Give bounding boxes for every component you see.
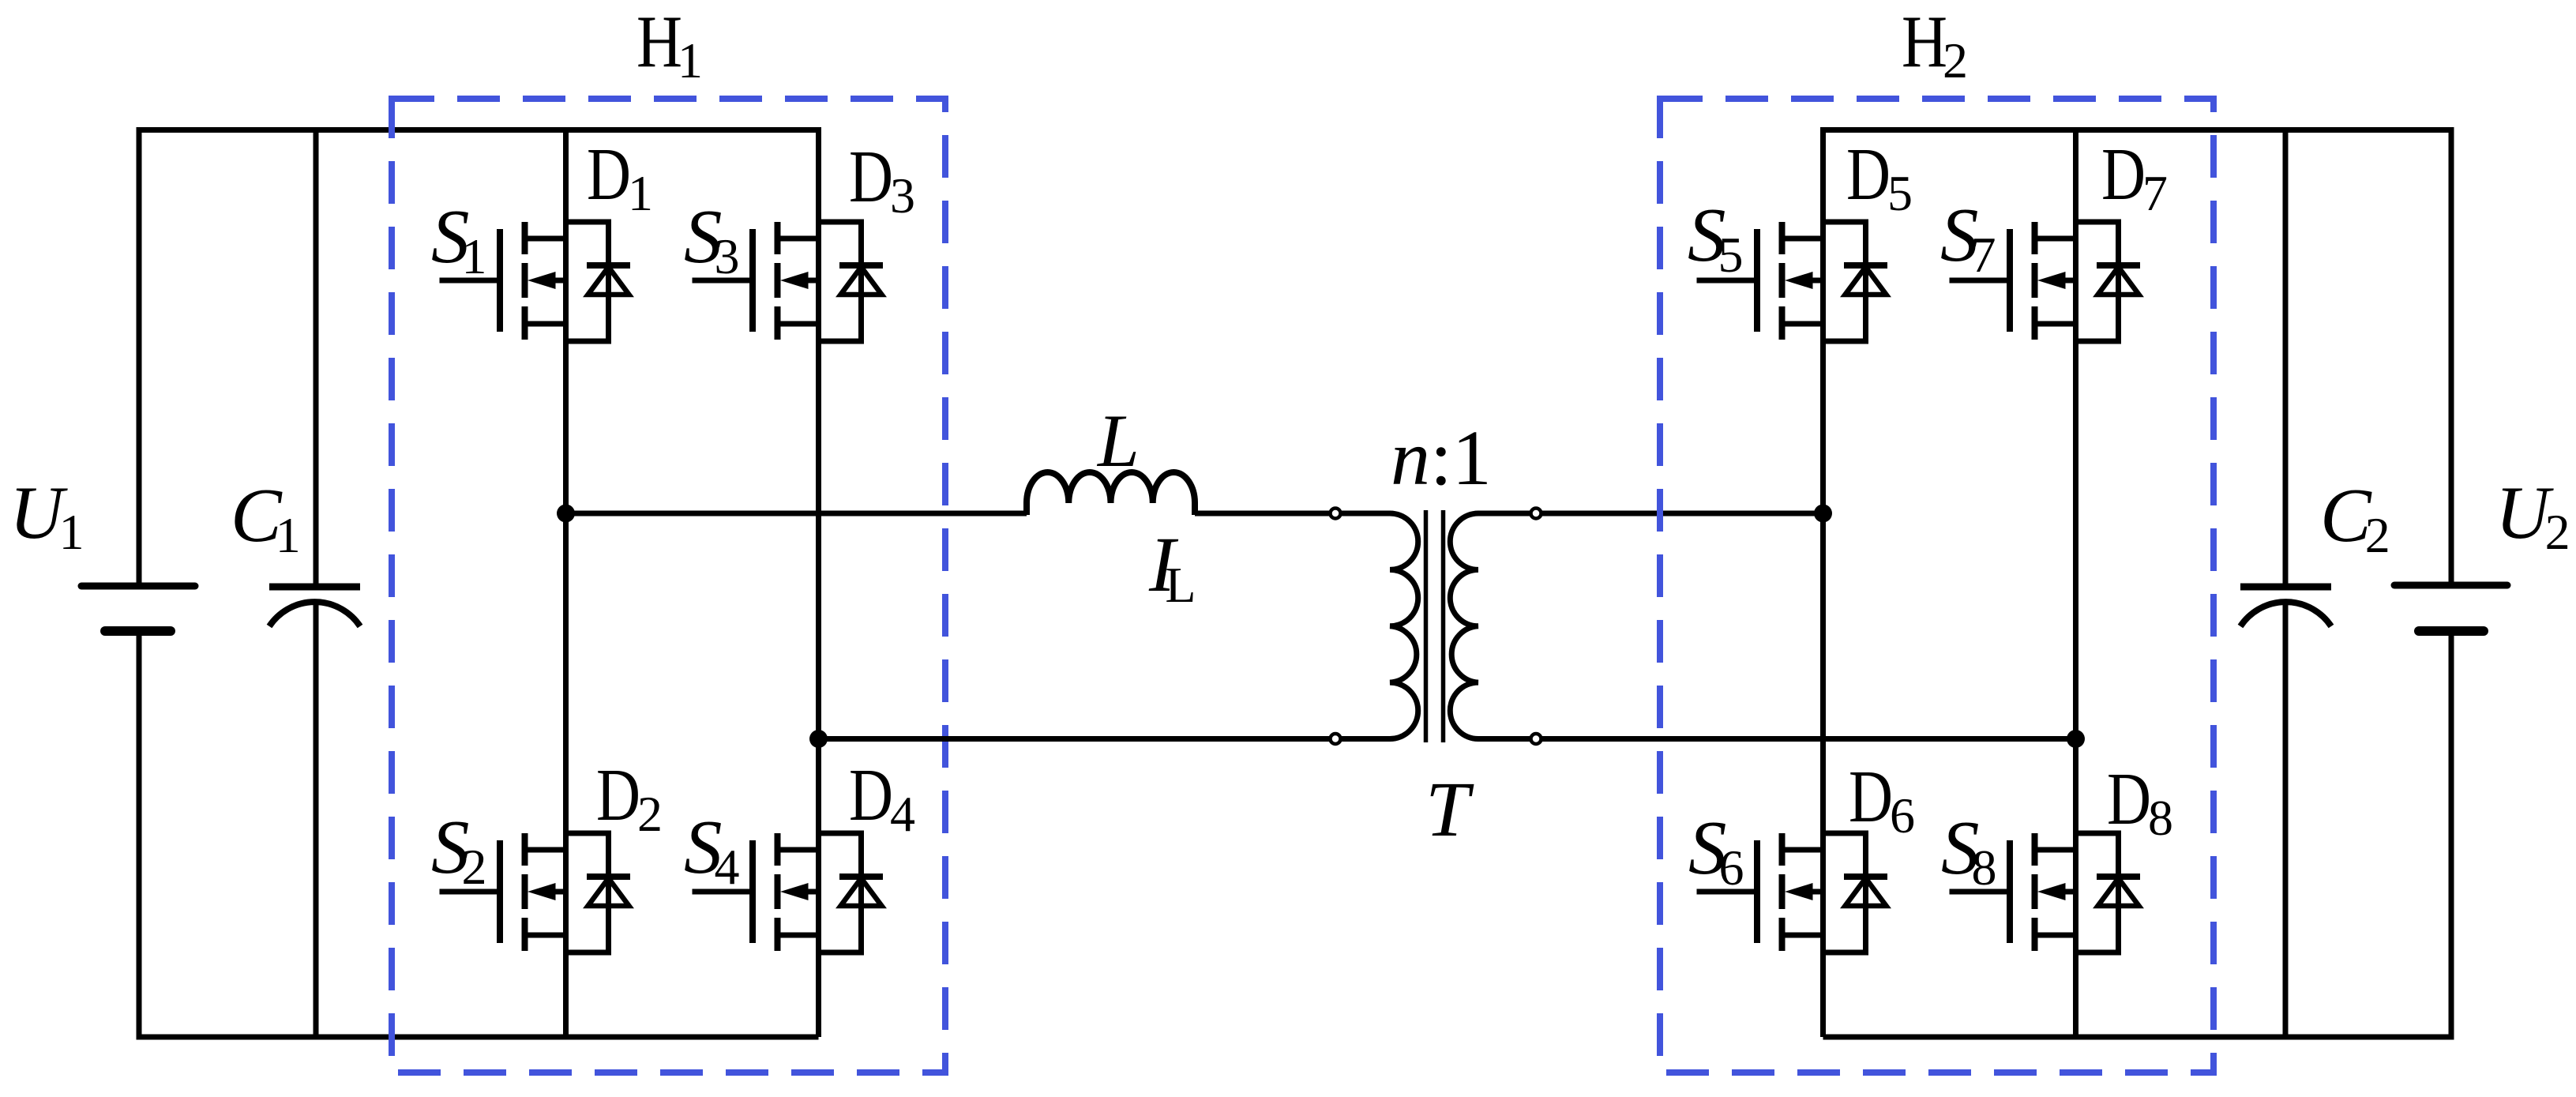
wire: bottom AC bus (transformer secondary to H2 leg B midpoint) <box>1478 736 2076 742</box>
wire: H2 leg S7/S8 <box>2073 127 2078 1037</box>
transistor S8 <box>1950 833 2076 951</box>
diode D3 <box>819 222 884 341</box>
wire: H1 leg S3/S4 <box>816 127 821 1037</box>
diode D5 <box>1823 222 1888 341</box>
node: transformer primary top terminal <box>1331 509 1341 519</box>
node: H1 leg A midpoint junction <box>557 505 575 523</box>
wire: right outer loop (top rail, U2 branch, bottom rail) <box>1823 130 2452 1038</box>
transistor S4 <box>693 833 819 951</box>
capacitor C1 <box>269 587 360 626</box>
transistor S5 <box>1697 222 1823 340</box>
wire: H2 leg S5/S6 <box>1820 127 1826 1037</box>
transistor S3 <box>693 222 819 340</box>
wire: H1 leg S1/S2 <box>563 127 569 1037</box>
wire: left outer loop (top rail, U1 branch, bottom rail) <box>139 130 819 1038</box>
diode D8 <box>2076 833 2141 952</box>
node: transformer secondary bottom terminal <box>1531 734 1541 744</box>
diode D7 <box>2076 222 2141 341</box>
wire: top AC bus (transformer secondary to H2) <box>1478 511 1823 517</box>
diode D2 <box>566 833 631 952</box>
wire: top AC bus (H1 midpoint to inductor) <box>566 511 1027 517</box>
node: transformer primary bottom terminal <box>1331 734 1341 744</box>
capacitor C2 <box>2240 587 2331 626</box>
transistor S7 <box>1950 222 2076 340</box>
transformer T primary winding <box>1390 513 1418 739</box>
node: H2 leg A midpoint junction <box>1814 505 1832 523</box>
node: H2 leg B midpoint junction <box>2067 730 2085 748</box>
transistor S2 <box>440 833 566 951</box>
bridge enclosure H2 (dashed box) <box>1660 99 2214 1073</box>
diode D1 <box>566 222 631 341</box>
wire: bottom AC bus (H1 leg B midpoint to transformer primary) <box>819 736 1391 742</box>
transistor S1 <box>440 222 566 340</box>
wire: C2 branch verticals <box>2283 130 2289 1038</box>
transistor S6 <box>1697 833 1823 951</box>
battery U2 <box>2394 585 2507 631</box>
node: transformer secondary top terminal <box>1531 509 1541 519</box>
svg-text:T: T <box>1425 765 1474 853</box>
node: H1 leg B midpoint junction <box>809 730 828 748</box>
diode D6 <box>1823 833 1888 952</box>
svg-text:L: L <box>1096 399 1140 483</box>
bridge enclosure H1 (dashed box) <box>392 99 945 1073</box>
wire: C1 branch verticals <box>314 130 319 1038</box>
wire: top AC bus (inductor to transformer primary) <box>1195 511 1391 517</box>
transformer T core <box>1426 510 1444 742</box>
diode D4 <box>819 833 884 952</box>
battery U1 <box>81 586 195 631</box>
transformer T secondary winding <box>1450 513 1478 739</box>
svg-text:n:1: n:1 <box>1391 414 1492 502</box>
inductor L <box>1027 472 1195 515</box>
